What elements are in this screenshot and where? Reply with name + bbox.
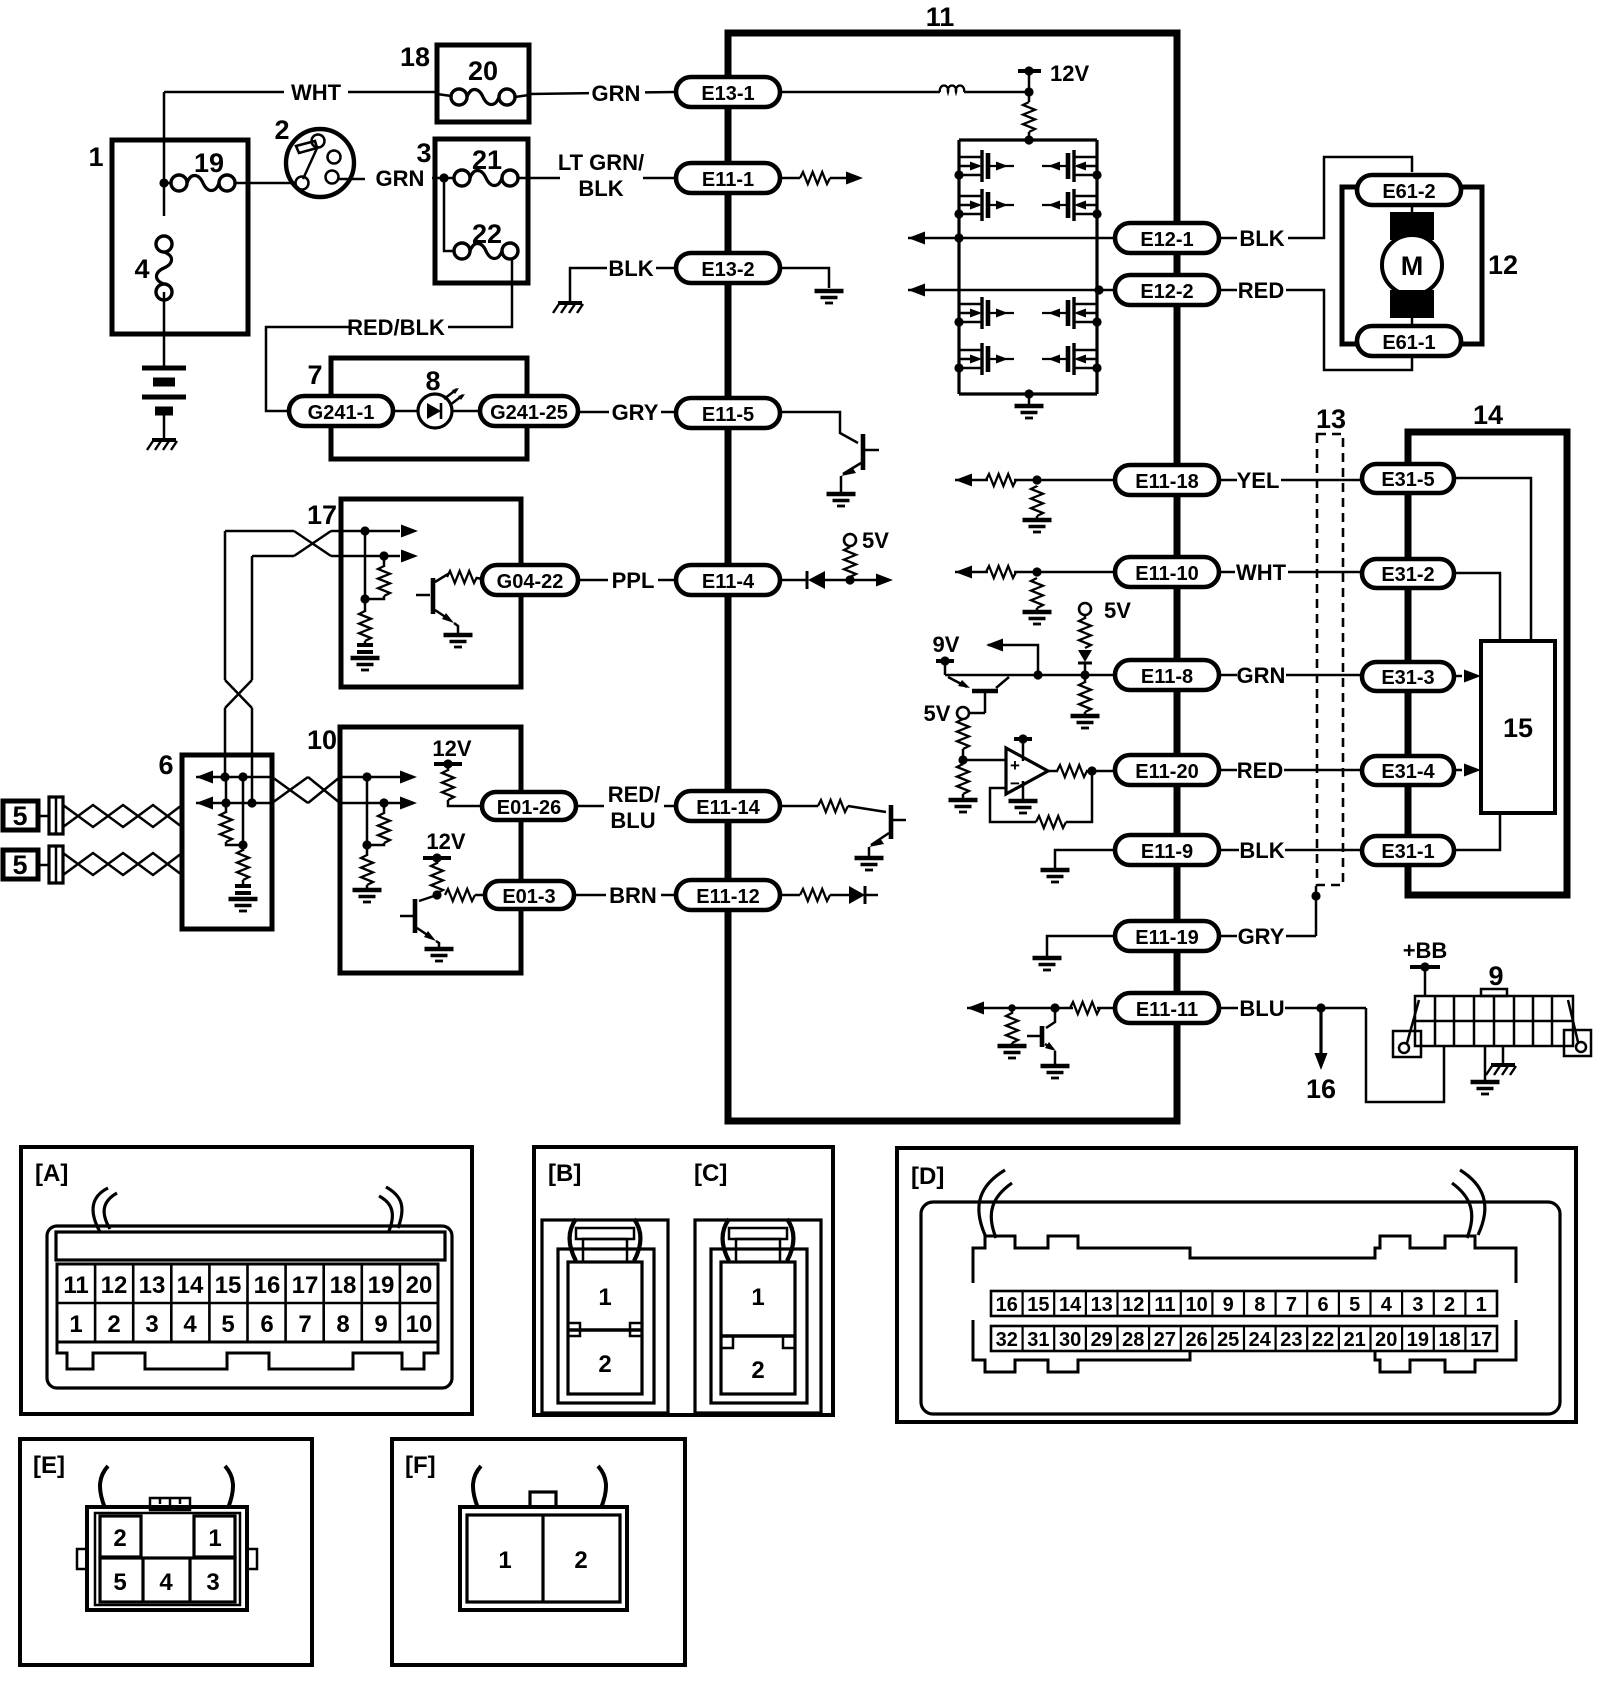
pill E11-19 [1115, 921, 1219, 951]
capacitor 6 [235, 886, 251, 893]
connector A wire right [379, 1187, 402, 1231]
resistor 6 a [220, 777, 243, 845]
ground op-amp [1009, 801, 1038, 813]
svg-text:18: 18 [400, 42, 430, 72]
svg-text:12V: 12V [432, 736, 471, 761]
wire fuse 22 to RED/BLK [448, 258, 512, 327]
ground antenna earth [1471, 1046, 1500, 1094]
battery/fuse box 1 [112, 140, 248, 334]
svg-text:3: 3 [416, 138, 431, 168]
wire G241-1 to LED [393, 410, 419, 413]
connector E wires [100, 1466, 233, 1508]
wire G04-22 to PPL to E11-4 [578, 579, 676, 582]
svg-text:15: 15 [1027, 1294, 1049, 1316]
svg-text:3: 3 [206, 1569, 219, 1596]
connector F top tab [530, 1492, 556, 1507]
wire into 17 upper [341, 525, 418, 538]
arrow 16 [1315, 1008, 1328, 1070]
wire fuse4 to battery [163, 292, 166, 367]
E11-18 interior: arrow resistor pulldown [955, 474, 1115, 533]
twisted pair 17 entry [225, 531, 341, 556]
svg-text:[B]: [B] [548, 1160, 581, 1187]
svg-text:GRN: GRN [1237, 663, 1286, 688]
wire E12-2 row [908, 284, 1115, 297]
vertical pair down to box 6 [225, 531, 252, 803]
vertical 6 b [242, 777, 245, 845]
pill E13-2 [676, 253, 780, 283]
label RED (E11-20) [1219, 758, 1362, 783]
H-bridge left rail [957, 140, 960, 394]
node bridge bottom [1024, 389, 1033, 398]
E11-14 interior [780, 800, 886, 812]
svg-text:14: 14 [177, 1272, 204, 1299]
pill E11-11 [1115, 993, 1219, 1023]
pulldown resistor below E11-8 [1071, 675, 1100, 728]
svg-text:E11-8: E11-8 [1141, 666, 1193, 688]
pill E11-8 [1115, 660, 1219, 690]
svg-text:2: 2 [107, 1311, 120, 1338]
svg-text:8: 8 [1254, 1294, 1265, 1316]
wire G241-25 to GRY [578, 411, 609, 414]
transistor Q 17 [416, 574, 458, 633]
ground Q E11-14 [855, 858, 884, 870]
transistor M7 [1042, 297, 1102, 329]
svg-text:30: 30 [1059, 1329, 1081, 1351]
pill E31-3 [1362, 662, 1454, 691]
svg-text:19: 19 [194, 148, 224, 178]
svg-text:10: 10 [307, 725, 337, 755]
connector A bottom tabs [57, 1342, 438, 1369]
svg-text:7: 7 [1286, 1294, 1297, 1316]
svg-text:[A]: [A] [35, 1160, 68, 1187]
connector B body [542, 1220, 668, 1413]
label BLK (E11-9) [1219, 838, 1363, 863]
fuse 20 [437, 89, 515, 105]
svg-text:5V: 5V [862, 528, 889, 553]
svg-text:RED: RED [1238, 278, 1284, 303]
svg-text:BLK: BLK [1239, 838, 1284, 863]
pill E11-1 [676, 163, 780, 193]
node E11-8 b [1080, 670, 1089, 679]
wire E01-26 to E11-14 [576, 805, 676, 808]
ground Q E11-11 [1041, 1066, 1070, 1078]
transistor M4 [954, 343, 1014, 375]
svg-text:GRY: GRY [1238, 924, 1285, 949]
connector D pin numbers row 1 [996, 1291, 1487, 1351]
connector D wire right [1452, 1170, 1485, 1238]
arrow E11-4 [850, 574, 893, 587]
svg-text:20: 20 [406, 1272, 433, 1299]
svg-text:BRN: BRN [609, 883, 657, 908]
wire node to fuse 22 [444, 178, 454, 251]
svg-text:6: 6 [1318, 1294, 1329, 1316]
svg-text:+: + [1010, 756, 1020, 775]
connector A body [47, 1226, 452, 1388]
connector A wire left [93, 1188, 117, 1232]
svg-text:12: 12 [101, 1272, 128, 1299]
op-amp output resistor [1048, 765, 1115, 777]
pill E01-3 [485, 881, 574, 909]
ground 17 [351, 658, 380, 670]
E11-11 interior [967, 1002, 1115, 1015]
svg-text:16: 16 [1306, 1074, 1336, 1104]
svg-text:5V: 5V [924, 701, 951, 726]
svg-text:14: 14 [1473, 400, 1503, 430]
resistor 12V to bridge [1023, 92, 1035, 140]
ground 6 [229, 899, 258, 911]
wire BLK to E13-2 [656, 267, 676, 270]
svg-text:[F]: [F] [405, 1452, 436, 1479]
label YEL [1219, 468, 1363, 493]
label GRY (E11-19) [1219, 924, 1316, 949]
5V divider to op-amp [949, 719, 1007, 812]
wire BLK to motor connector [1288, 157, 1412, 238]
5V circle at Q base [924, 701, 985, 726]
pill E31-1 [1362, 836, 1454, 865]
svg-text:BLK: BLK [1239, 226, 1284, 251]
wire GRY to E11-5 [661, 411, 676, 414]
svg-text:G241-25: G241-25 [490, 402, 568, 424]
pill E31-4 [1362, 756, 1454, 785]
svg-text:5: 5 [12, 850, 27, 880]
fuse box 18 [437, 45, 529, 122]
wire WHT horizontal [164, 91, 437, 94]
wire fuse 20 to GRN label [515, 95, 529, 97]
12V source lower in 10 [423, 829, 466, 900]
arrow up-left E11-8 [986, 639, 1038, 676]
transistor M1 [954, 150, 1014, 182]
svg-text:M: M [1401, 251, 1424, 281]
wire inductor to node [964, 91, 1029, 94]
wire RED/BLK to G241-1 [266, 327, 350, 411]
pill E11-18 [1115, 465, 1219, 495]
pill E01-26 [482, 792, 576, 820]
label GRN (E11-8) [1219, 663, 1362, 688]
vertical drop 17 a [364, 531, 367, 599]
svg-text:[E]: [E] [33, 1452, 65, 1479]
pill E31-2 [1362, 559, 1454, 588]
ground E13-2 interior [815, 291, 844, 303]
connector D pin numbers row 2 [996, 1329, 1493, 1351]
transistor Q E11-14 [869, 805, 906, 856]
svg-text:15: 15 [1503, 713, 1533, 743]
svg-text:5: 5 [113, 1569, 126, 1596]
svg-text:GRY: GRY [612, 400, 659, 425]
connector view B/C frame [534, 1147, 833, 1415]
svg-text:1: 1 [208, 1525, 221, 1552]
noise filter box 6 [182, 755, 272, 929]
svg-text:BLU: BLU [1239, 996, 1284, 1021]
motor brush top [1390, 205, 1434, 240]
label WHT (E11-10) [1219, 560, 1363, 585]
svg-text:E31-1: E31-1 [1381, 841, 1434, 863]
wire 10 upper [340, 771, 417, 784]
ignition switch 2 [286, 129, 354, 197]
wire GRN to fuse 21 [432, 177, 454, 180]
svg-text:6: 6 [158, 750, 173, 780]
transistor M6 [1042, 189, 1102, 221]
svg-text:23: 23 [1280, 1329, 1302, 1351]
connector E body [77, 1507, 257, 1610]
svg-text:4: 4 [159, 1569, 173, 1596]
ECU box 11 [728, 33, 1177, 1121]
illumination box 7 [331, 358, 527, 459]
svg-text:31: 31 [1027, 1329, 1049, 1351]
E11-8 interior wire [945, 674, 1115, 677]
svg-text:29: 29 [1091, 1329, 1113, 1351]
svg-text:4: 4 [1381, 1294, 1393, 1316]
pill E11-5 [676, 398, 780, 428]
svg-text:5V: 5V [1104, 598, 1131, 623]
inductor [940, 85, 964, 92]
connector view F frame [392, 1439, 685, 1665]
svg-text:20: 20 [468, 56, 498, 86]
op-amp feedback [990, 771, 1092, 828]
svg-text:E31-4: E31-4 [1381, 761, 1435, 783]
svg-text:10: 10 [406, 1311, 433, 1338]
wire E31-1 to 15 [1454, 813, 1500, 850]
svg-text:2: 2 [574, 1547, 587, 1574]
shield box 13 (dashed) [1317, 434, 1343, 885]
pill E12-2 [1115, 275, 1219, 305]
E13-2 interior wire to ground [780, 268, 829, 288]
svg-text:5: 5 [1349, 1294, 1360, 1316]
H-bridge bottom rail [959, 392, 1097, 395]
svg-text:18: 18 [330, 1272, 357, 1299]
svg-text:E11-20: E11-20 [1135, 761, 1198, 783]
E11-10 interior: arrow resistor pulldown [955, 566, 1115, 625]
E11-1 interior resistor and arrow [780, 172, 863, 185]
pill E11-4 [676, 565, 780, 595]
svg-text:12: 12 [1488, 250, 1518, 280]
wire E31-2 to 15 [1454, 573, 1500, 641]
connector E top tab [150, 1498, 190, 1510]
svg-text:E13-2: E13-2 [701, 259, 754, 281]
motor box 12 [1342, 187, 1482, 344]
vertical drop 10 a [366, 777, 369, 845]
svg-text:E11-11: E11-11 [1136, 999, 1198, 1021]
svg-text:19: 19 [368, 1272, 395, 1299]
twisted pair 6 to 10 [272, 777, 340, 803]
ground Q10 [425, 949, 454, 961]
svg-text:BLU: BLU [610, 808, 655, 833]
svg-text:25: 25 [1217, 1329, 1239, 1351]
wire 6 upper [196, 771, 272, 784]
motor M [1382, 235, 1442, 295]
antenna plug 5 lower [3, 846, 63, 883]
svg-text:13: 13 [1316, 404, 1346, 434]
node BLU junction [1316, 1003, 1325, 1012]
fuse 21 [454, 170, 518, 186]
antenna plug 5 upper [3, 797, 63, 834]
transistor M3 [954, 297, 1014, 329]
svg-text:1: 1 [1476, 1294, 1487, 1316]
pill G241-1 [289, 396, 393, 426]
twisted pair 5 upper [63, 805, 182, 827]
wire E13-1 to 12V node [780, 91, 940, 94]
svg-text:BLK: BLK [578, 176, 623, 201]
E11-9 interior ground [1041, 850, 1116, 882]
connector view D frame [897, 1148, 1576, 1422]
svg-text:11: 11 [1154, 1294, 1175, 1316]
svg-text:9: 9 [374, 1311, 387, 1338]
resistor 6 to cap [237, 845, 249, 884]
svg-text:[C]: [C] [694, 1160, 727, 1187]
svg-text:1: 1 [751, 1284, 764, 1311]
pill G241-25 [480, 396, 578, 426]
wire BLK elbow to ground (E13-2 left) [570, 268, 607, 301]
H-bridge top rail [959, 138, 1097, 141]
connector B wires [570, 1219, 641, 1261]
wire 10 lower [340, 797, 417, 810]
svg-text:14: 14 [1059, 1294, 1082, 1316]
svg-text:18: 18 [1438, 1329, 1460, 1351]
svg-text:19: 19 [1407, 1329, 1429, 1351]
transistor Q E11-5 [841, 434, 879, 492]
wire E12-1 row [908, 232, 1115, 245]
svg-text:−: − [1010, 774, 1020, 793]
label RED/ BLU [608, 782, 661, 833]
svg-text:16: 16 [996, 1294, 1018, 1316]
svg-text:6: 6 [260, 1311, 273, 1338]
pill G04-22 [482, 565, 578, 595]
svg-text:E31-5: E31-5 [1381, 469, 1434, 491]
svg-text:LT GRN/: LT GRN/ [558, 150, 644, 175]
transistor M2 [954, 189, 1014, 221]
resistor 17 b [365, 556, 390, 599]
node E11-8 a [1033, 670, 1042, 679]
ground H-bridge [1015, 394, 1044, 418]
svg-text:GRN: GRN [592, 81, 641, 106]
9V supply [933, 632, 960, 675]
node 10 [362, 840, 371, 849]
node junction at fuse 19 [159, 178, 168, 187]
transistor Q 10 [400, 895, 439, 947]
svg-text:5: 5 [221, 1311, 234, 1338]
label BLU (E11-11) [1219, 996, 1366, 1021]
connector D wire left [979, 1170, 1012, 1238]
svg-text:1: 1 [598, 1284, 611, 1311]
battery [142, 368, 186, 438]
pill E12-1 [1115, 223, 1219, 253]
motor brush bottom [1390, 290, 1434, 328]
svg-text:E11-14: E11-14 [696, 797, 760, 819]
svg-text:1: 1 [88, 142, 103, 172]
12V supply [1018, 61, 1089, 92]
svg-text:E12-1: E12-1 [1140, 229, 1193, 251]
E11-19 interior ground [1033, 936, 1116, 970]
amplifier box 14 [1408, 432, 1567, 895]
E11-4 interior diode [780, 571, 850, 589]
svg-text:11: 11 [63, 1272, 88, 1299]
svg-text:E12-2: E12-2 [1140, 281, 1193, 303]
svg-text:13: 13 [139, 1272, 166, 1299]
wire LT GRN/BLK to E11-1 [643, 177, 676, 180]
connector D body [921, 1202, 1560, 1414]
connector A pin grid [57, 1264, 438, 1342]
svg-text:17: 17 [1470, 1329, 1492, 1351]
steering wheel switch box 17 [341, 499, 521, 687]
svg-text:E01-3: E01-3 [502, 886, 555, 908]
svg-text:9V: 9V [933, 632, 960, 657]
node 6 [238, 840, 247, 849]
svg-text:9: 9 [1223, 1294, 1234, 1316]
svg-text:12: 12 [1122, 1294, 1144, 1316]
wire GRY up to shield 13 [1311, 886, 1320, 936]
svg-text:26: 26 [1185, 1329, 1207, 1351]
audio unit box 10 [340, 727, 521, 973]
+BB supply [1403, 938, 1448, 996]
transistor Q E11-11 [1027, 1008, 1056, 1064]
pill E11-12 [676, 880, 780, 910]
resistor to E01-3 [445, 889, 485, 901]
wire E31-3 arrow into 15 [1454, 670, 1481, 683]
LED 8 [418, 388, 465, 428]
pill E61-1 [1357, 326, 1461, 356]
wire E31-4 arrow into 15 [1454, 764, 1481, 777]
svg-text:11: 11 [926, 2, 955, 32]
fuse 4 [134, 183, 172, 300]
svg-text:32: 32 [996, 1329, 1018, 1351]
svg-text:2: 2 [598, 1351, 611, 1378]
svg-text:E11-19: E11-19 [1135, 927, 1198, 949]
node E11-4 [845, 575, 854, 584]
wire into 17 lower [341, 550, 418, 563]
wire E31-5 to 15 [1454, 478, 1531, 641]
svg-text:16: 16 [254, 1272, 281, 1299]
connector D pin rows [991, 1291, 1497, 1351]
svg-text:BLK: BLK [608, 256, 653, 281]
pill E61-2 [1357, 175, 1461, 205]
svg-text:17: 17 [292, 1272, 319, 1299]
svg-text:E11-1: E11-1 [702, 169, 754, 191]
svg-text:PPL: PPL [612, 568, 655, 593]
H-bridge right rail [1095, 140, 1098, 394]
resistor 17 to cap [359, 599, 371, 644]
connector view A frame [21, 1147, 472, 1414]
svg-text:RED/: RED/ [608, 782, 661, 807]
svg-text:3: 3 [145, 1311, 158, 1338]
svg-text:2: 2 [751, 1357, 764, 1384]
node 12V [1024, 87, 1033, 96]
svg-text:G04-22: G04-22 [497, 571, 564, 593]
svg-text:8: 8 [425, 366, 440, 396]
svg-text:24: 24 [1249, 1329, 1272, 1351]
E11-12 interior diode [780, 886, 878, 904]
wire WHT vertical from fuse 19 up [163, 92, 166, 183]
svg-text:RED: RED [1237, 758, 1283, 783]
wire BLU to antenna 9 [1366, 1008, 1444, 1102]
svg-text:17: 17 [307, 500, 337, 530]
svg-text:12V: 12V [1050, 61, 1089, 86]
svg-text:E11-4: E11-4 [702, 571, 755, 593]
node 17 [360, 594, 369, 603]
transistor Q E11-8 [948, 677, 1009, 713]
5V diode branch E11-8 [1078, 598, 1131, 675]
chassis ground E13-2 left [553, 303, 583, 313]
svg-text:RED/BLK: RED/BLK [347, 315, 445, 340]
transistor M8 [1042, 343, 1102, 375]
svg-text:YEL: YEL [1237, 468, 1280, 493]
pill E11-10 [1115, 557, 1219, 587]
pill E11-20 [1115, 755, 1219, 785]
svg-text:E11-12: E11-12 [696, 886, 759, 908]
svg-text:E61-1: E61-1 [1382, 332, 1435, 354]
svg-text:2: 2 [113, 1525, 126, 1552]
svg-text:21: 21 [1344, 1329, 1366, 1351]
ground below battery [147, 440, 177, 450]
capacitor 17 [357, 645, 373, 652]
